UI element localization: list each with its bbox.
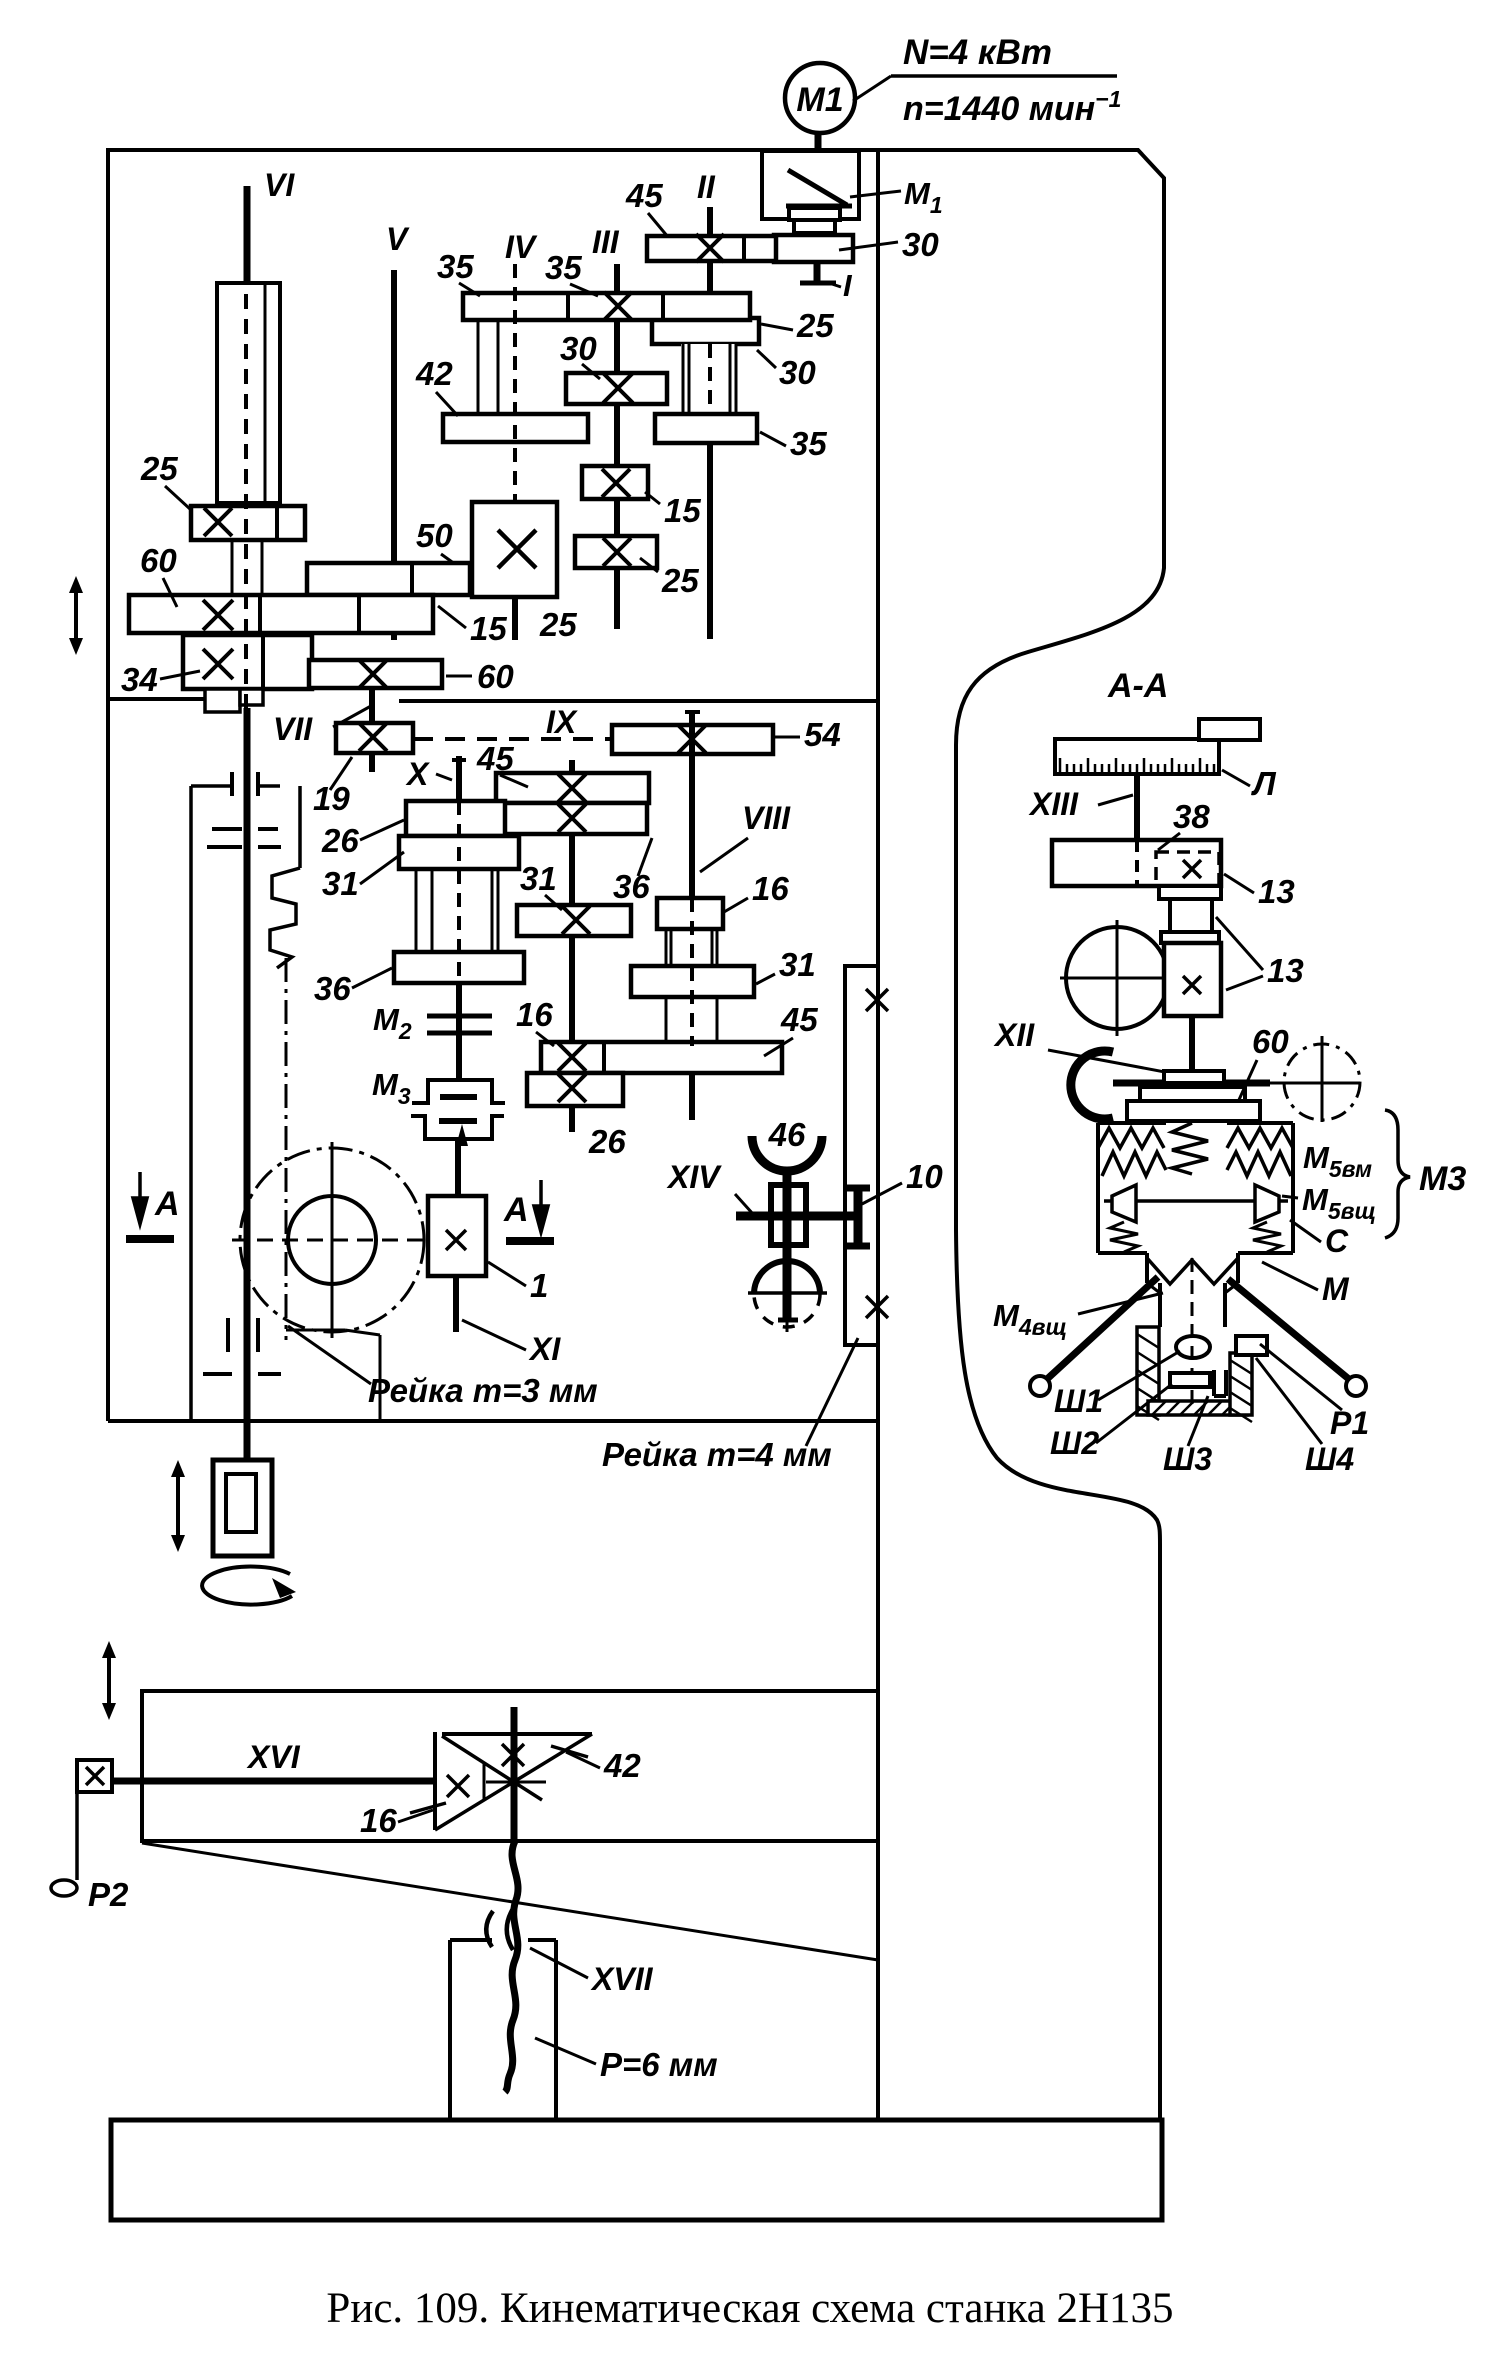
part Sh3 <box>1212 1370 1216 1396</box>
shaft XII <box>1189 1016 1195 1071</box>
svg-text:16: 16 <box>516 996 553 1033</box>
table box <box>142 1691 878 1841</box>
shaft VII <box>369 688 375 772</box>
shaft I lower end <box>814 262 821 281</box>
svg-text:IV: IV <box>505 229 538 265</box>
worm wheel frame <box>771 1185 806 1245</box>
table bracket diagonal <box>142 1843 878 1960</box>
rack L ruler <box>1055 739 1219 774</box>
svg-text:XVII: XVII <box>590 1961 654 1997</box>
gear 25 on III <box>575 536 657 568</box>
gear 30 on III <box>566 373 667 404</box>
svg-text:31: 31 <box>779 946 816 983</box>
svg-text:V: V <box>386 221 410 257</box>
svg-text:Р1: Р1 <box>1330 1405 1369 1441</box>
svg-text:42: 42 <box>603 1747 641 1784</box>
svg-text:Ш3: Ш3 <box>1163 1441 1212 1477</box>
svg-text:13: 13 <box>1267 952 1304 989</box>
label M1 clutch <box>850 191 901 197</box>
hub sleeve on II <box>681 344 737 414</box>
svg-text:42: 42 <box>415 355 453 392</box>
pinion Sh2 <box>1170 1373 1210 1387</box>
svg-text:13: 13 <box>1258 873 1295 910</box>
gear 31 on VIII <box>631 966 754 997</box>
hatched bracket bottom <box>1148 1401 1247 1415</box>
svg-text:N=4 кВт: N=4 кВт <box>903 33 1052 72</box>
svg-text:VIII: VIII <box>742 800 791 836</box>
svg-text:25: 25 <box>796 307 834 344</box>
svg-text:60: 60 <box>140 542 177 579</box>
svg-text:Ш4: Ш4 <box>1305 1441 1354 1477</box>
handwheel circle <box>1066 927 1168 1029</box>
svg-text:60: 60 <box>1252 1023 1289 1060</box>
gear 38 with clutch 13 <box>1052 840 1221 886</box>
svg-text:46: 46 <box>768 1116 806 1153</box>
svg-text:Рейка m=4 мм: Рейка m=4 мм <box>602 1436 832 1473</box>
gear 1 on XI <box>428 1196 486 1276</box>
sleeve on VIII upper <box>665 929 668 966</box>
gear 16 on VIII <box>657 898 723 929</box>
shifter fork <box>1071 1051 1113 1119</box>
svg-text:1: 1 <box>530 1267 548 1304</box>
sleeve on VIII lower <box>665 997 668 1042</box>
lower housing walls <box>1158 1283 1162 1327</box>
svg-text:М3: М3 <box>1419 1160 1466 1198</box>
feed box bottom border <box>108 1419 878 1423</box>
cone springs <box>1110 1222 1138 1252</box>
svg-text:25: 25 <box>140 450 178 487</box>
rack Sh4 <box>1236 1336 1267 1355</box>
svg-text:54: 54 <box>804 716 841 753</box>
gear 1 pitch circle <box>240 1148 424 1332</box>
svg-text:XIV: XIV <box>666 1159 722 1195</box>
bevel circle below <box>754 1261 820 1294</box>
svg-text:26: 26 <box>588 1123 626 1160</box>
machine column outline <box>108 150 1164 2120</box>
svg-text:Рис. 109. Кинематическая схема: Рис. 109. Кинематическая схема станка 2Н… <box>326 2285 1173 2332</box>
hatched bracket right <box>1230 1353 1252 1415</box>
gear 45 on IX axis <box>496 773 649 803</box>
central spring <box>1172 1123 1208 1174</box>
svg-text:XVI: XVI <box>246 1739 301 1775</box>
spline zigzag <box>270 868 300 968</box>
spindle rack centerline <box>285 958 288 1340</box>
cone M4 serration <box>1145 1253 1149 1283</box>
svg-text:Р=6 мм: Р=6 мм <box>600 2046 718 2083</box>
gear 60 on VII <box>309 660 442 688</box>
vertical feed arrow left <box>74 587 78 644</box>
gear 15-25 row on V <box>307 563 470 595</box>
vertical shaft to screw <box>511 1707 518 1841</box>
shaft VI dashed centerline redraw <box>244 294 248 708</box>
gear 31 mid <box>517 905 631 936</box>
svg-text:n=1440 мин−1: n=1440 мин−1 <box>903 86 1121 128</box>
shaft IX-X vertical <box>569 760 575 773</box>
shaft VIII <box>689 710 695 898</box>
svg-text:С: С <box>1325 1223 1349 1259</box>
machine base <box>111 2120 1162 2220</box>
mating pinion phantom circle <box>1284 1044 1360 1120</box>
cam ellipse Sh1 <box>1176 1336 1210 1358</box>
overload clutch M5 ratchet <box>1096 1123 1100 1177</box>
shaft XVI <box>114 1778 436 1785</box>
shaft XIV <box>783 1167 792 1320</box>
gear 16-45 row <box>541 1042 782 1073</box>
svg-text:50: 50 <box>416 517 453 554</box>
gear 26 on X <box>406 801 505 836</box>
svg-text:31: 31 <box>520 860 557 897</box>
shaft I from motor <box>815 133 822 168</box>
motor label leader <box>853 76 891 101</box>
gear 60 row on VI/V <box>129 595 433 633</box>
column front vertical line <box>876 151 880 2120</box>
shaft XIII <box>1134 774 1140 840</box>
gear 45 on II <box>647 236 776 261</box>
spindle bearings top <box>230 772 234 796</box>
cone followers <box>1112 1185 1136 1222</box>
clutch M1 jaw symbol <box>788 170 847 205</box>
rack step profile <box>286 1329 345 1332</box>
svg-text:45: 45 <box>780 1001 818 1038</box>
svg-text:Рейка m=3 мм: Рейка m=3 мм <box>368 1372 598 1409</box>
svg-text:26: 26 <box>321 822 359 859</box>
clutch sleeve <box>789 208 840 220</box>
shaft VIII dashed redraw <box>690 898 694 1046</box>
gear 60 on XII <box>1113 1080 1270 1087</box>
svg-text:15: 15 <box>470 610 507 647</box>
svg-text:16: 16 <box>752 870 789 907</box>
svg-text:IX: IX <box>546 704 578 740</box>
gear 36 on IX axis <box>503 803 647 834</box>
svg-text:10: 10 <box>906 1158 943 1195</box>
shaft IV dashed redraw <box>513 264 517 502</box>
svg-text:35: 35 <box>790 425 827 462</box>
table lift arrow <box>107 1652 111 1709</box>
brace M3 group <box>1385 1110 1410 1238</box>
svg-text:35: 35 <box>545 249 582 286</box>
svg-text:16: 16 <box>360 1802 397 1839</box>
spindle chuck <box>244 1421 251 1462</box>
spindle shaft VI <box>244 186 251 294</box>
svg-text:31: 31 <box>322 865 359 902</box>
gear block 50 on IV <box>472 502 557 597</box>
gear 34 on VI <box>183 635 312 689</box>
gear 36 on X <box>394 952 524 983</box>
lead screw XVII wavy <box>505 1841 518 2092</box>
svg-text:25: 25 <box>539 606 577 643</box>
svg-text:II: II <box>697 169 716 205</box>
gear 19 on VII <box>336 723 413 753</box>
sleeve on X <box>415 869 418 952</box>
svg-text:М: М <box>1322 1271 1350 1307</box>
shaft XI <box>455 1139 461 1196</box>
clutch body M5 <box>1096 1177 1100 1253</box>
sleeve under gear 34 <box>205 689 240 712</box>
svg-text:38: 38 <box>1173 798 1210 835</box>
svg-text:Р2: Р2 <box>88 1876 129 1913</box>
svg-text:VI: VI <box>264 167 295 203</box>
speed box / feed box divider line <box>108 697 204 701</box>
svg-text:30: 30 <box>902 226 939 263</box>
gear 42 on IV <box>443 414 588 442</box>
svg-text:XIII: XIII <box>1028 786 1079 822</box>
svg-text:III: III <box>592 224 620 260</box>
shaft IX dashed line <box>413 737 612 741</box>
gear 25 on VI <box>191 506 305 540</box>
svg-text:45: 45 <box>625 177 663 214</box>
clutch M3 <box>412 1080 505 1103</box>
svg-text:30: 30 <box>779 354 816 391</box>
clutch M2 <box>427 1014 492 1019</box>
svg-text:А-А: А-А <box>1107 667 1168 705</box>
svg-text:25: 25 <box>661 562 699 599</box>
svg-text:35: 35 <box>437 248 474 285</box>
handwheel mechanism 13 <box>1159 886 1221 899</box>
svg-text:36: 36 <box>314 970 351 1007</box>
clutch M1 housing <box>762 151 859 219</box>
svg-text:60: 60 <box>477 658 514 695</box>
spindle bearings bottom <box>226 1318 230 1352</box>
label 60 on VII <box>446 675 472 678</box>
gear 25 on II <box>652 318 759 344</box>
svg-text:I: I <box>843 268 853 303</box>
svg-text:X: X <box>405 756 430 792</box>
svg-text:А: А <box>503 1191 529 1229</box>
gear 26 bottom <box>527 1073 623 1106</box>
worm symbol 46 <box>752 1136 822 1171</box>
label 30 on I <box>839 242 898 250</box>
bevel gear 16 <box>433 1732 437 1830</box>
sleeve under gear 25 <box>231 540 234 595</box>
svg-text:15: 15 <box>664 492 701 529</box>
column pillar <box>448 1940 452 2120</box>
svg-text:VII: VII <box>273 711 313 747</box>
handle P2 square <box>77 1760 112 1792</box>
gear block 35-35 on III/IV <box>463 293 750 320</box>
shaft X dashed redraw <box>457 801 461 1014</box>
hatched bracket left <box>1137 1327 1159 1415</box>
svg-text:XII: XII <box>993 1017 1035 1053</box>
svg-text:Ш1: Ш1 <box>1054 1383 1103 1419</box>
svg-text:А: А <box>154 1185 180 1223</box>
spindle quill <box>217 283 280 503</box>
svg-text:45: 45 <box>476 740 514 777</box>
gear 30 on shaft I <box>774 235 853 262</box>
worm wheel shaft <box>736 1212 856 1221</box>
gear 54 on VIII <box>612 725 773 754</box>
gear 15 on III <box>582 466 648 499</box>
svg-text:М1: М1 <box>796 81 843 119</box>
svg-text:30: 30 <box>560 330 597 367</box>
vertical rack housing <box>845 966 878 1345</box>
rotation arrow <box>202 1567 292 1605</box>
worm 10 I-bar <box>854 1190 863 1245</box>
svg-text:Л: Л <box>1251 765 1277 802</box>
spline dashes <box>212 827 242 831</box>
svg-text:Ш2: Ш2 <box>1050 1425 1099 1461</box>
svg-text:XI: XI <box>528 1331 561 1367</box>
hub sleeve on IV <box>477 320 480 414</box>
spindle sleeve walls <box>189 786 193 1421</box>
motor M1 circle <box>785 63 855 133</box>
release arms <box>1046 1277 1158 1380</box>
chuck feed arrow <box>176 1471 180 1541</box>
svg-text:34: 34 <box>121 661 158 698</box>
gear 31 on X <box>399 836 519 869</box>
left frame edge <box>106 148 110 1421</box>
gear 35 lower on II <box>655 414 757 443</box>
svg-text:36: 36 <box>613 868 650 905</box>
shaft X <box>456 756 462 801</box>
section A arrows left <box>133 1172 147 1224</box>
screw break arcs <box>486 1911 493 1947</box>
